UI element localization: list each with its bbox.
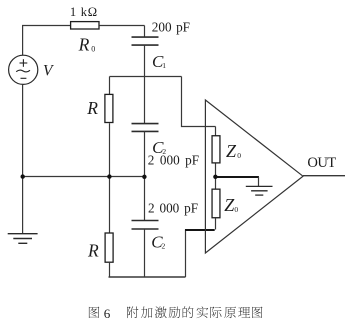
capacitor C2 upper [132, 124, 159, 132]
capacitor C2 lower [132, 221, 159, 230]
svg-text:2: 2 [162, 242, 166, 251]
svg-text:Z: Z [226, 141, 237, 161]
svg-text:R: R [87, 241, 99, 261]
capacitor C1 [144, 26, 146, 38]
svg-text:2 000 pF: 2 000 pF [148, 153, 199, 168]
resistor R0 [71, 22, 99, 29]
svg-text:6: 6 [104, 306, 111, 321]
svg-text:0: 0 [237, 151, 241, 160]
svg-text:0: 0 [234, 205, 238, 214]
wire: lower Z0 to riser (thick) [185, 229, 215, 231]
node A (left rail junction) [21, 174, 25, 178]
wire: output [303, 175, 345, 177]
ground left [22, 177, 24, 234]
ground right [258, 177, 260, 186]
svg-text:2 000 pF: 2 000 pF [148, 201, 198, 216]
node B (R column junction) [107, 174, 111, 178]
wire: C1 bottom to C2 top [144, 45, 146, 123]
wire: right branch down to op-amp input [182, 77, 216, 127]
wire: Z0 node to ground (thick) [215, 176, 259, 178]
resistor R upper [109, 77, 111, 95]
impedance Z0 upper [215, 127, 217, 136]
node C (C column junction) [142, 175, 146, 179]
wire top-left: source top to R0 [23, 26, 71, 56]
wire: source bottom to mid rail [22, 84, 24, 176]
svg-text:0: 0 [91, 45, 95, 54]
resistor R lower [109, 177, 111, 234]
wire: mid rail [23, 176, 145, 178]
op-amp U1 [205, 100, 303, 253]
wire: mid rail to C2 lower [144, 177, 146, 221]
svg-text:200 pF: 200 pF [152, 20, 190, 35]
wire: bottom rail [109, 276, 186, 278]
svg-text:R: R [86, 98, 98, 118]
wire top-right: R0 to C1 [100, 25, 145, 27]
svg-text:OUT: OUT [307, 155, 336, 171]
impedance Z0 lower [215, 177, 217, 189]
svg-text:V: V [43, 62, 54, 79]
voltage source V [9, 55, 38, 84]
wire: riser from bottom rail to lower Z0 [185, 230, 187, 278]
wire: upper horizontal rail [110, 76, 182, 78]
node D (Z0 junction) [213, 175, 217, 179]
caption text: Figure 6 actual schematic [89, 306, 263, 318]
svg-text:1 kΩ: 1 kΩ [70, 5, 98, 19]
svg-text:R: R [78, 35, 90, 55]
svg-text:1: 1 [162, 61, 166, 70]
